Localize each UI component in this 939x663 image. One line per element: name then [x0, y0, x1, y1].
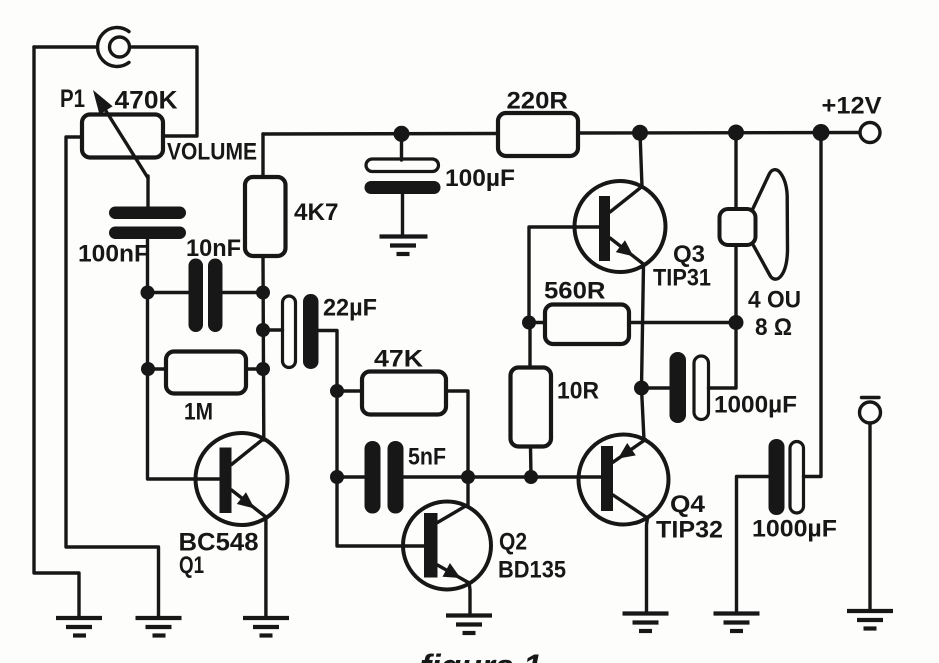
wire output node down to Q4 emitter [642, 388, 645, 440]
ground (input shield) [56, 618, 102, 636]
wire 1M right lead [246, 367, 263, 370]
wire 100uF to ground [401, 194, 404, 237]
capacitor 1000uF output [670, 352, 709, 423]
wire 10nF right plate to 4K7 leg [223, 291, 263, 294]
wire 47K left lead [337, 389, 362, 392]
svg-text:Q1: Q1 [179, 552, 204, 579]
wire Q1 emitter to ground [264, 517, 267, 618]
capacitor 100nF [109, 207, 186, 240]
node dot output/speaker bottom [729, 315, 744, 330]
resistor 4K7 [245, 177, 286, 256]
svg-text:470K: 470K [115, 87, 178, 115]
resistor 47K [362, 372, 446, 415]
svg-text:10nF: 10nF [186, 235, 241, 262]
transistor Q2 BD135 [403, 502, 491, 590]
capacitor 22uF [283, 294, 319, 369]
svg-text:BD135: BD135 [498, 557, 566, 584]
node dot Q3 emitter / 1000uF [634, 381, 649, 396]
+12V terminal [860, 123, 880, 143]
node dot 47K left [330, 384, 344, 398]
wire jack shield down left side to ground [34, 47, 79, 618]
ground (Q2 emitter) [446, 616, 492, 634]
resistor 560R [545, 305, 629, 345]
capacitor 1000uF supply filter [769, 439, 804, 515]
capacitor 5nF [365, 441, 404, 514]
wire Q2 emitter to ground [468, 583, 472, 616]
wire Q3 emitter down to output node [642, 265, 644, 389]
wire rail through speaker to output node [734, 133, 737, 323]
svg-text:Q2: Q2 [499, 529, 527, 556]
ground (100uF) [380, 237, 428, 255]
node dot 10nF/4K7 [256, 286, 270, 300]
ground (negative terminal) [847, 611, 893, 629]
wire 560R node down to 10R [528, 323, 531, 368]
wire Q4 collector to ground [647, 518, 648, 614]
wire rail to 100uF [400, 134, 403, 160]
svg-text:4K7: 4K7 [294, 199, 339, 226]
wire 10R bottom leg [529, 447, 533, 478]
wire node to 10nF left plate [148, 291, 189, 294]
input jack J1 [98, 28, 130, 67]
wire 1000uF right plate up to speaker node [709, 323, 737, 389]
svg-text:4 OU: 4 OU [748, 287, 801, 314]
capacitor 10nF [189, 259, 223, 333]
capacitor 100uF [365, 159, 441, 194]
wire +12V rail right segment [578, 131, 860, 135]
svg-text:47K: 47K [374, 346, 424, 373]
transistor Q4 TIP32 [579, 435, 669, 525]
svg-text:TIP31: TIP31 [653, 265, 711, 292]
svg-text:1000µF: 1000µF [714, 392, 797, 419]
wire rail corner down to 4K7 [261, 134, 264, 177]
ground (Q1 emitter) [243, 618, 289, 636]
node dot filter cap on rail [813, 124, 830, 141]
wire 5nF right plate across to Q4 base [404, 475, 602, 478]
node dot 100uF on rail [394, 126, 410, 142]
transistor Q3 TIP31 [575, 181, 666, 272]
svg-text:1M: 1M [184, 399, 213, 426]
svg-text:TIP32: TIP32 [656, 517, 723, 544]
ground (Q4 collector) [623, 614, 669, 632]
svg-text:VOLUME: VOLUME [167, 139, 257, 166]
node dot Q3 collector on rail [632, 125, 648, 141]
wire filter cap left plate to ground [737, 477, 769, 614]
wire 100nF down to Q1 base [148, 239, 221, 479]
svg-text:P1: P1 [60, 85, 85, 113]
wire Q3 base to 560R node [529, 227, 599, 323]
wire output node to 1000uF left plate [642, 386, 671, 389]
wire to 22uF left plate [263, 328, 283, 331]
node dot 5nF/Q2 collector [461, 470, 475, 484]
node dot 100nF/10nF [141, 286, 155, 300]
wire P1 left terminal to ground [66, 137, 159, 618]
svg-text:10R: 10R [557, 378, 599, 405]
wire 560R left lead [529, 321, 545, 324]
wire rail down right side to filter cap [804, 133, 822, 477]
svg-text:+12V: +12V [822, 93, 882, 120]
node dot 1M right [256, 362, 270, 376]
transistor Q1 BC548 [196, 433, 288, 525]
svg-text:220R: 220R [507, 88, 569, 115]
svg-text:Q4: Q4 [670, 491, 706, 518]
wire negative terminal to ground [868, 423, 871, 611]
svg-text:100nF: 100nF [78, 241, 149, 268]
wire P1 wiper to 100nF [146, 176, 149, 208]
node dot 22uF input [256, 323, 270, 337]
wire rail to Q3 collector [640, 133, 642, 187]
svg-text:560R: 560R [544, 278, 606, 305]
svg-text:100µF: 100µF [445, 165, 515, 192]
svg-text:22µF: 22µF [323, 295, 377, 322]
ground (filter cap) [714, 614, 760, 632]
wire 560R right lead to speaker node [629, 321, 736, 324]
wire 22uF output down to 47K node [319, 331, 338, 392]
potentiometer P1 470K body [82, 115, 163, 158]
wire jack right lead to pot top terminal [130, 47, 197, 136]
negative supply terminal [860, 398, 881, 424]
svg-text:5nF: 5nF [408, 444, 446, 471]
speaker 4 OU 8 ohms [720, 170, 788, 279]
node dot 560R left [522, 316, 536, 330]
wire feedback node down to Q2 base [337, 391, 424, 546]
svg-text:8 Ω: 8 Ω [755, 314, 792, 341]
resistor 10R [511, 368, 552, 447]
wire +12V rail left segment [263, 132, 498, 136]
wire 5nF left lead [337, 475, 365, 478]
resistor 220R [498, 113, 578, 156]
svg-text:1000µF: 1000µF [752, 516, 837, 543]
ground (P1 cold end) [136, 618, 182, 636]
node dot speaker on rail [728, 125, 744, 141]
svg-text:figura 1: figura 1 [420, 648, 542, 663]
potentiometer P1 wiper arrow [93, 90, 148, 178]
wire jack left lead [34, 45, 97, 48]
node dot 5nF left [330, 470, 344, 484]
resistor 1M [166, 352, 246, 394]
wire 1M left lead [148, 367, 166, 370]
node dot 10R bottom [524, 470, 538, 484]
node dot 1M left [141, 362, 155, 376]
wire 47K right lead down to Q2 collector [446, 391, 468, 505]
wire 4K7 bottom leg down to Q1 collector [261, 256, 265, 440]
